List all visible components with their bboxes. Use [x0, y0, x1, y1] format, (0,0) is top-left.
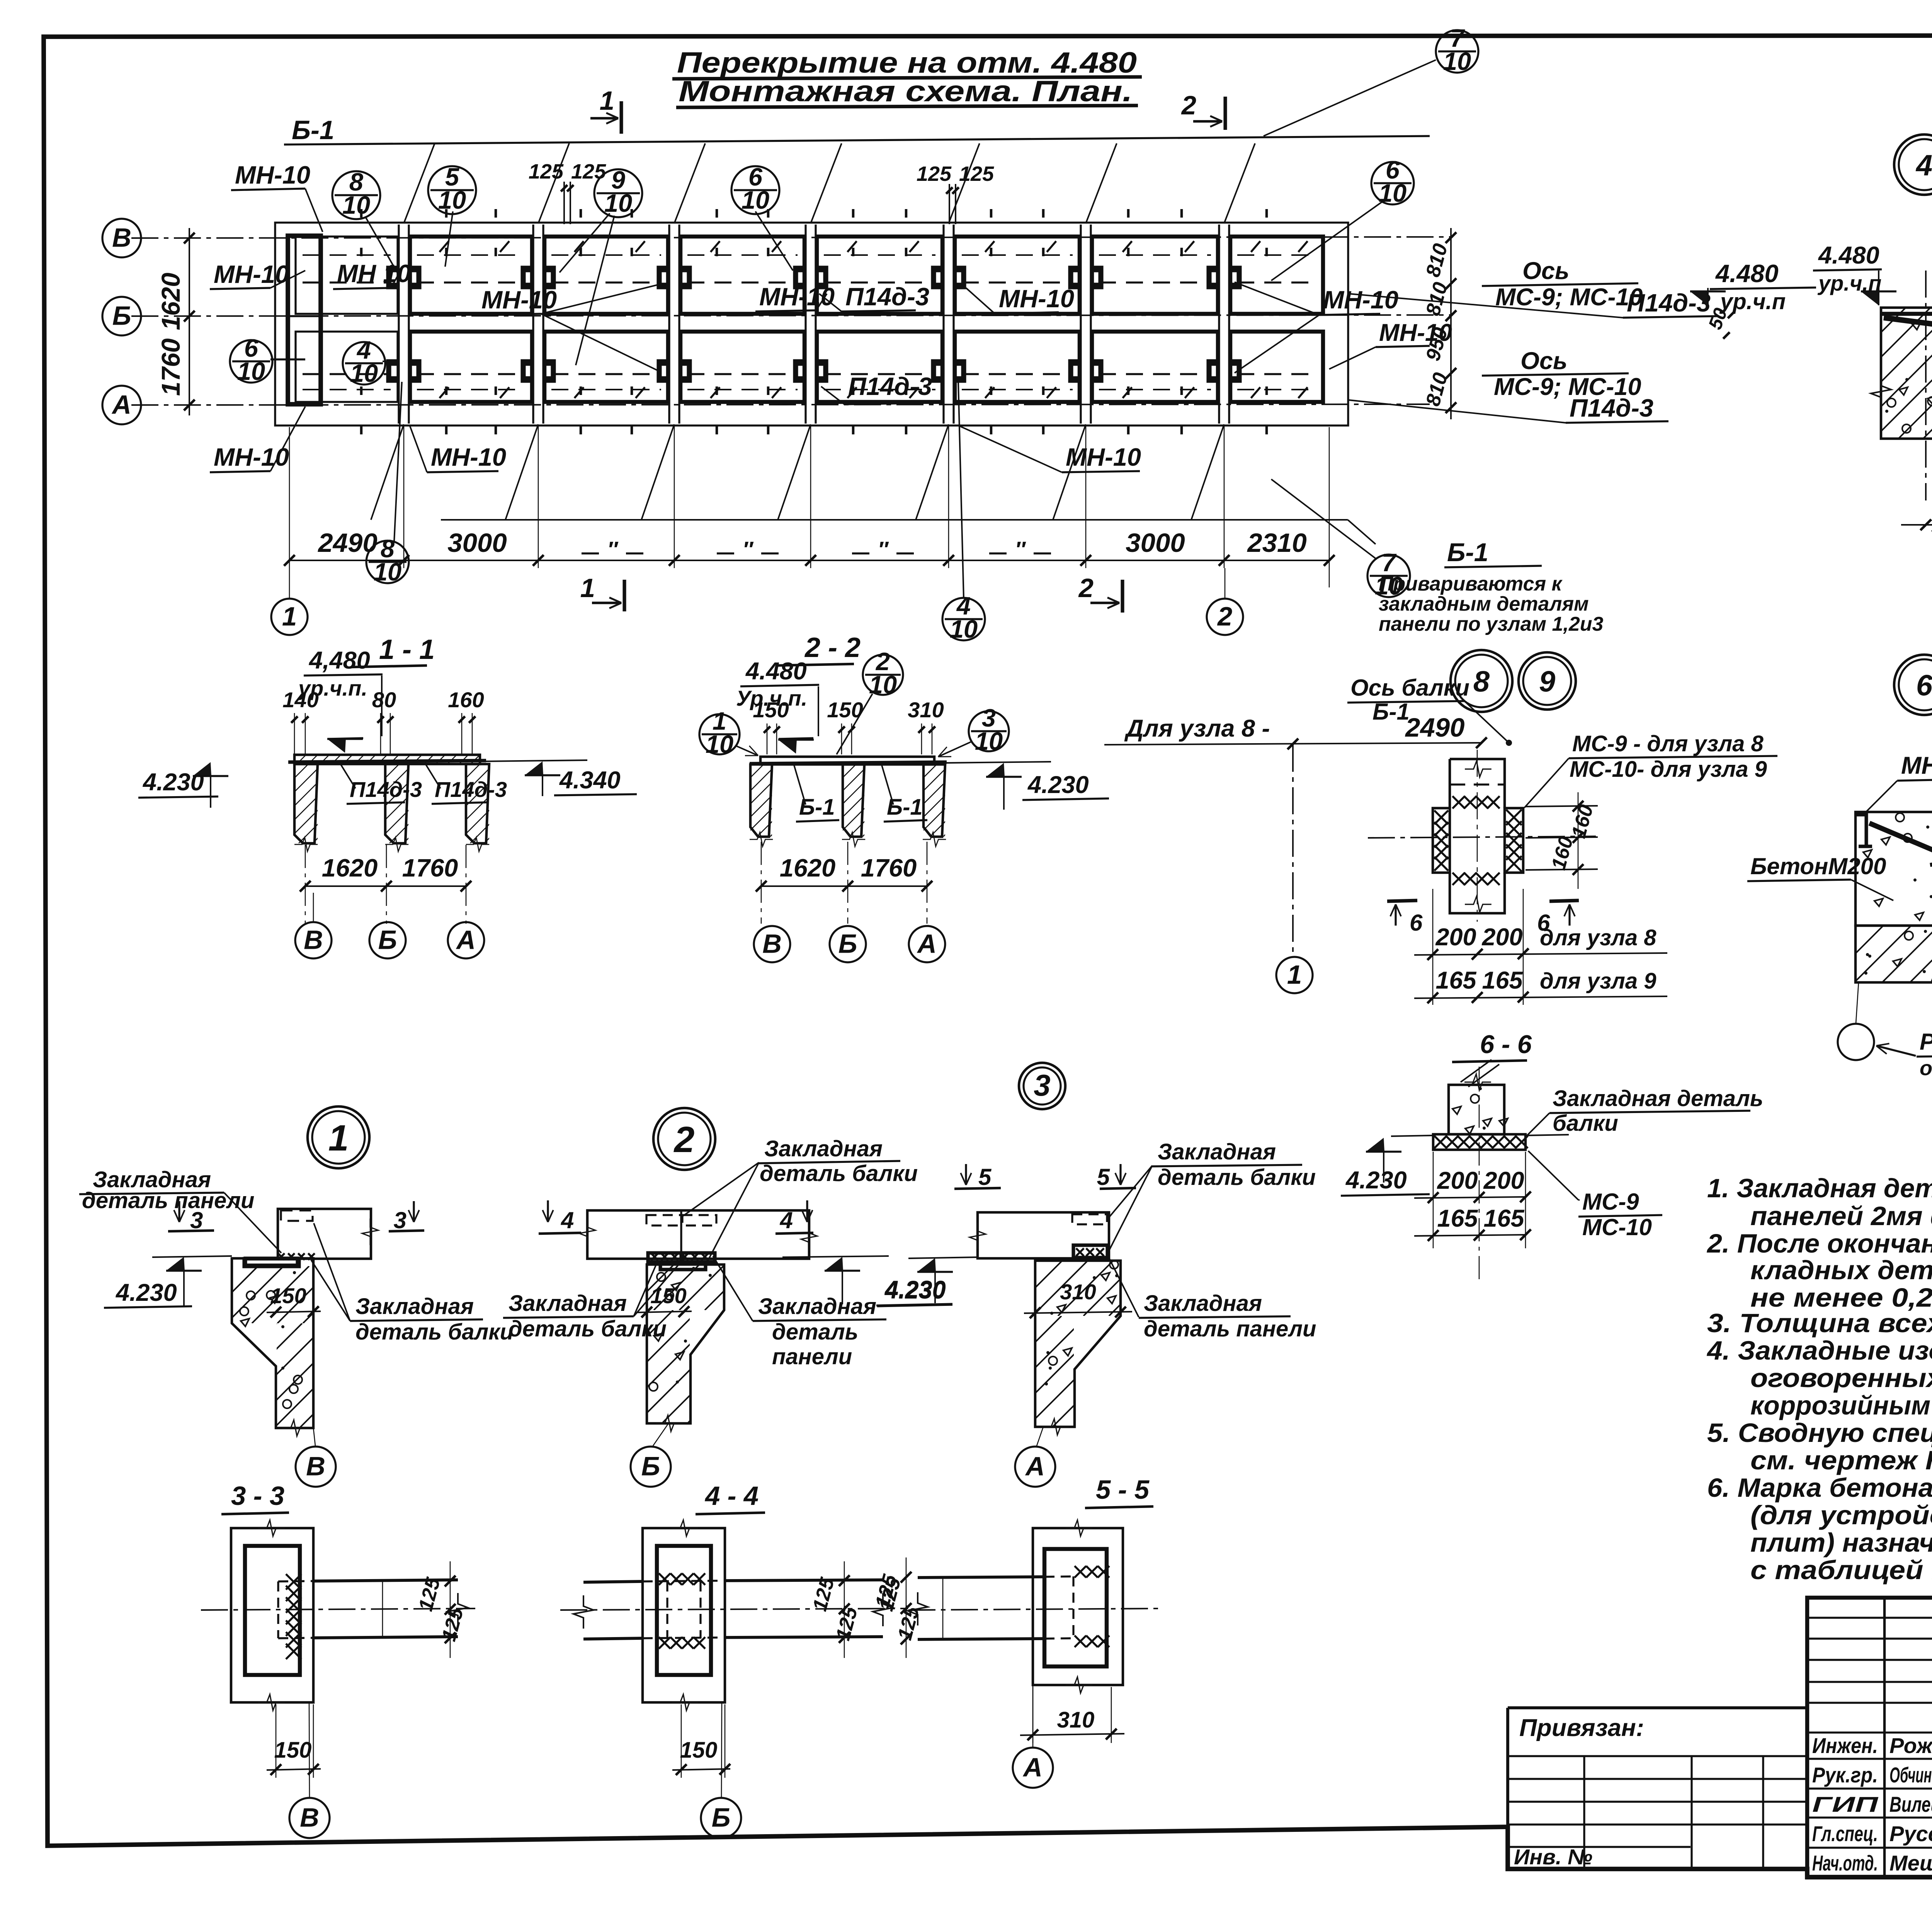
svg-text:200: 200 — [1481, 924, 1522, 951]
Привязан block — [1508, 1708, 1807, 1869]
svg-text:МС-10: МС-10 — [1582, 1214, 1652, 1240]
svg-text:3: 3 — [394, 1207, 406, 1233]
detail 4 МН-10 channel plate — [1881, 314, 1932, 339]
small diagonal marks on panels — [439, 241, 449, 252]
svg-text:оси А,В: оси А,В — [1920, 1057, 1932, 1080]
svg-text:МН-10: МН-10 — [431, 443, 506, 471]
svg-text:10: 10 — [438, 186, 466, 214]
section 3-3 beam — [313, 1580, 458, 1581]
detail 1 section marks 3 — [178, 1201, 180, 1222]
svg-text:3: 3 — [1034, 1068, 1050, 1102]
svg-text:Для узла 8 -: Для узла 8 - — [1124, 715, 1270, 742]
section 5-5 panel outer — [1033, 1528, 1123, 1685]
svg-text:Рожкова: Рожкова — [1889, 1733, 1932, 1758]
svg-text:Закладная деталь: Закладная деталь — [1553, 1086, 1763, 1111]
section 2-2 dims 1620 1760 — [761, 885, 927, 887]
svg-text:МС-9; МС-10: МС-9; МС-10 — [1495, 284, 1643, 311]
node centerlines — [1368, 836, 1596, 838]
svg-text:ГИП: ГИП — [1812, 1792, 1879, 1816]
svg-text:Инв. №: Инв. № — [1514, 1845, 1592, 1869]
axis line В — [131, 237, 1451, 238]
section 5-5 dims 125 125 — [906, 1557, 907, 1658]
svg-text:МН 10: МН 10 — [337, 259, 411, 288]
detail 6 МН-10 corner plate — [1855, 815, 1872, 846]
svg-text:для узла 8: для узла 8 — [1540, 925, 1656, 950]
svg-text:Вилейкина: Вилейкина — [1889, 1792, 1932, 1816]
detail 3 slab panel — [978, 1212, 1109, 1258]
grid circle 2 — [1207, 599, 1243, 635]
svg-text:3: 3 — [190, 1207, 203, 1233]
section 4-4 dims 125 125 — [844, 1561, 845, 1658]
panel joint dashed lines and МС axes — [303, 281, 391, 283]
svg-text:Руссин: Руссин — [1889, 1821, 1932, 1846]
svg-text:10: 10 — [869, 671, 897, 699]
svg-text:200: 200 — [1437, 1167, 1478, 1194]
right vertical dim 810/810/950/810 — [1450, 228, 1452, 419]
svg-text:10: 10 — [374, 558, 401, 586]
svg-text:Б: Б — [112, 301, 131, 330]
detail 2 beam leg concrete — [647, 1265, 724, 1423]
callout 6/10 right — [1371, 162, 1414, 204]
svg-text:плит) назначается при привязке: плит) назначается при привязке проекта в… — [1750, 1528, 1932, 1557]
section 2-2 callout 1/10 — [699, 714, 740, 754]
svg-text:5. Сводную спецификацию издели: 5. Сводную спецификацию изделий на монта… — [1707, 1418, 1932, 1448]
section 2-2 callout 2/10 — [863, 655, 903, 695]
detail 6 anchor bar — [1869, 823, 1932, 855]
svg-text:125: 125 — [529, 160, 564, 183]
svg-text:160: 160 — [448, 688, 484, 712]
svg-text:В: В — [304, 925, 323, 955]
detail 3 beam leg concrete — [1035, 1261, 1121, 1427]
node dim 160 160 right — [1578, 792, 1579, 889]
svg-text:4. Закладные изделия и соедини: 4. Закладные изделия и соединительные де… — [1706, 1336, 1932, 1365]
detail 6 Ряды 1,2 / оси А,В label — [1876, 1046, 1916, 1056]
callout 8/10 upper left — [332, 171, 380, 219]
svg-text:2490: 2490 — [1405, 713, 1465, 742]
svg-text:Б-1: Б-1 — [1372, 699, 1410, 725]
detail 6 Ряды circle — [1838, 1024, 1874, 1060]
svg-text:150: 150 — [827, 698, 863, 722]
detail 1 slab panel — [278, 1209, 371, 1259]
svg-text:4.480: 4.480 — [745, 658, 807, 685]
svg-text:Б-1: Б-1 — [1447, 538, 1488, 567]
svg-text:2 - 2: 2 - 2 — [804, 632, 861, 663]
svg-text:10: 10 — [706, 730, 733, 758]
svg-text:Закладная: Закладная — [1144, 1291, 1262, 1316]
callout 5/10 — [428, 166, 476, 214]
axis circle В — [102, 219, 141, 257]
svg-text:ур.ч.п: ур.ч.п — [1719, 289, 1786, 314]
svg-text:5: 5 — [1097, 1164, 1111, 1190]
svg-text:4.230: 4.230 — [884, 1276, 946, 1303]
section 2-2 axis circles — [754, 926, 790, 962]
svg-text:3 - 3: 3 - 3 — [231, 1481, 284, 1511]
svg-text:МС-9; МС-10: МС-9; МС-10 — [1494, 373, 1641, 400]
svg-text:2: 2 — [1181, 90, 1196, 120]
svg-text:В: В — [762, 929, 782, 958]
svg-text:панели: панели — [772, 1344, 852, 1369]
svg-text:6 - 6: 6 - 6 — [1480, 1030, 1532, 1059]
svg-text:165: 165 — [1437, 1205, 1478, 1232]
svg-text:Б: Б — [712, 1802, 731, 1832]
svg-text:4.230: 4.230 — [1345, 1167, 1407, 1194]
callout 6/10 top right of plan — [731, 166, 779, 214]
personnel table columns — [1883, 1598, 1886, 1877]
svg-text:МН-10: МН-10 — [999, 284, 1074, 313]
svg-text:Мешалкин: Мешалкин — [1889, 1851, 1932, 1875]
svg-text:10: 10 — [342, 191, 370, 219]
svg-text:9: 9 — [1539, 665, 1555, 698]
svg-text:МН-10: МН-10 — [1066, 443, 1141, 471]
section 1-1 axis circles В Б А — [295, 922, 332, 958]
detail circle 6 — [1894, 655, 1932, 715]
svg-text:МС-9: МС-9 — [1582, 1189, 1639, 1215]
detail 1 beam leg concrete — [232, 1258, 313, 1428]
svg-text:П14д-3: П14д-3 — [848, 372, 932, 400]
node vertical dash-dot line — [1292, 745, 1294, 953]
ditto marks — [582, 552, 599, 554]
svg-text:деталь балки: деталь балки — [1158, 1165, 1316, 1190]
section mark 1 bottom — [622, 580, 626, 611]
svg-text:4.480: 4.480 — [1715, 259, 1779, 288]
svg-text:П14д-3: П14д-3 — [435, 777, 507, 802]
svg-text:4.480: 4.480 — [1818, 242, 1879, 269]
svg-text:закладным деталям: закладным деталям — [1379, 593, 1589, 615]
node beam strip — [1450, 759, 1505, 913]
svg-text:4: 4 — [561, 1207, 574, 1233]
node dims 200 200 для узла 8 — [1414, 953, 1667, 955]
svg-text:1: 1 — [1287, 960, 1302, 989]
svg-text:4,480: 4,480 — [308, 647, 370, 674]
svg-text:″: ″ — [743, 537, 754, 561]
detail 4 concrete block — [1881, 308, 1932, 439]
svg-text:2. После окончания сварки свар: 2. После окончания сварки сварные швы и … — [1706, 1229, 1932, 1258]
personnel table rows — [1807, 1617, 1932, 1619]
section 5-5 axis circle А — [1032, 1685, 1034, 1747]
section 5-5 beam from left — [918, 1577, 1044, 1578]
svg-text:2: 2 — [1078, 573, 1094, 603]
node dims 165 165 для узла 9 — [1414, 996, 1667, 998]
axis circle Б — [102, 297, 141, 335]
6-6 dims 200 200 — [1414, 1197, 1526, 1198]
svg-text:деталь балки: деталь балки — [509, 1316, 667, 1341]
svg-text:10: 10 — [975, 727, 1003, 755]
svg-text:оговоренных в п.1) защищаются: оговоренных в п.1) защищаются обмазкой з… — [1750, 1363, 1932, 1393]
svg-text:2: 2 — [1217, 601, 1232, 631]
section 5-5 centerline — [908, 1608, 1160, 1610]
svg-text:125: 125 — [917, 162, 952, 186]
detail 2 section marks 4 — [547, 1200, 549, 1222]
svg-text:МН-10: МН-10 — [1323, 286, 1398, 314]
svg-text:1 - 1: 1 - 1 — [379, 634, 435, 665]
section 4-4 axis circle Б — [721, 1702, 722, 1797]
axis line А — [131, 404, 1430, 405]
detail 3 elevation 4.230 — [908, 1257, 978, 1258]
node side plates — [1433, 808, 1450, 873]
detail 1 elevation 4.230 — [152, 1256, 232, 1257]
svg-text:А: А — [917, 929, 937, 958]
section marks 6-6 on node — [1387, 900, 1417, 901]
svg-text:Закладная: Закладная — [509, 1291, 627, 1316]
6-6 dims 165 165 — [1414, 1235, 1526, 1236]
svg-text:1: 1 — [580, 573, 595, 603]
svg-text:Б: Б — [378, 925, 397, 955]
detail 6 break mark bottom — [1920, 972, 1932, 992]
detail 2 elevation line — [782, 1256, 889, 1257]
svg-text:2310: 2310 — [1247, 528, 1307, 558]
axis line Б — [131, 315, 1451, 316]
beams Б-1 (double line verticals with МН-10 flange plates) — [398, 225, 400, 424]
section 2-2 slab — [760, 757, 934, 764]
section 3-3 dims 125 125 — [450, 1561, 451, 1658]
svg-text:150: 150 — [270, 1283, 306, 1308]
svg-text:1620: 1620 — [780, 854, 836, 882]
detail 6 block upper (Бетон М200) — [1855, 812, 1932, 926]
svg-text:А: А — [111, 390, 131, 419]
svg-text:Привариваются к: Привариваются к — [1379, 573, 1563, 595]
Ось МС-9; МС-10 upper — [1482, 283, 1638, 286]
svg-text:деталь панели: деталь панели — [82, 1188, 254, 1213]
svg-text:3. Толщина всех сварных швов-8: 3. Толщина всех сварных швов-8мм. Электр… — [1707, 1308, 1932, 1338]
Ось МС-9; МС-10 lower — [1482, 373, 1629, 376]
svg-text:МС-9 - для узла 8: МС-9 - для узла 8 — [1572, 731, 1764, 756]
svg-text:Закладная: Закладная — [1158, 1139, 1276, 1164]
callout 9/10 — [594, 169, 642, 217]
svg-text:3000: 3000 — [1126, 528, 1185, 558]
callout 7/10 top far right — [1436, 30, 1478, 73]
svg-text:10: 10 — [742, 186, 769, 214]
svg-text:10: 10 — [350, 359, 378, 387]
svg-text:310: 310 — [1057, 1707, 1095, 1733]
svg-text:панели по узлам 1,2и3: панели по узлам 1,2и3 — [1379, 613, 1604, 635]
detail circle 3 — [1019, 1063, 1065, 1109]
svg-text:125: 125 — [959, 162, 994, 186]
svg-text:165: 165 — [1435, 967, 1476, 994]
svg-text:1760: 1760 — [402, 854, 458, 882]
svg-text:Закладная: Закладная — [758, 1294, 876, 1319]
svg-text:см. чертеж КЖ-1.: см. чертеж КЖ-1. — [1750, 1445, 1932, 1475]
svg-text:″: ″ — [607, 537, 619, 561]
svg-text:5: 5 — [978, 1164, 992, 1190]
svg-text:А: А — [1022, 1752, 1043, 1782]
svg-text:В: В — [306, 1451, 325, 1481]
svg-text:Монтажная схема. План.: Монтажная схема. План. — [679, 75, 1133, 108]
svg-text:1. Закладная деталь балки Б-1: 1. Закладная деталь балки Б-1 приваривае… — [1707, 1173, 1932, 1203]
callout 4/10 in plan — [343, 342, 385, 385]
panel joint dash marks at beams — [360, 209, 363, 218]
svg-text:10: 10 — [237, 357, 265, 385]
svg-text:деталь балки: деталь балки — [355, 1319, 514, 1345]
section 3-3 panel inner — [245, 1546, 300, 1675]
svg-text:4: 4 — [1915, 149, 1932, 182]
svg-text:для узла 9: для узла 9 — [1540, 968, 1656, 994]
title block outer — [1807, 1598, 1932, 1877]
svg-text:165: 165 — [1482, 967, 1523, 994]
detail 4 break marks — [1871, 375, 1891, 408]
svg-text:150: 150 — [753, 698, 789, 722]
svg-text:4 - 4: 4 - 4 — [704, 1481, 759, 1511]
section 5-5 weld hatches — [1075, 1566, 1086, 1578]
section 4-4 centerline — [560, 1608, 908, 1610]
grid circle 1 — [271, 599, 308, 635]
svg-text:5 - 5: 5 - 5 — [1096, 1475, 1150, 1505]
svg-text:10: 10 — [604, 189, 632, 217]
detail 4 centerline — [1925, 271, 1927, 500]
svg-text:Б: Б — [641, 1451, 660, 1481]
node detail circles 8 and 9 — [1451, 650, 1512, 712]
detail 6 block lower hatched — [1855, 926, 1932, 982]
section 2-2 elevation 4.230 — [986, 763, 1005, 777]
svg-text:6: 6 — [1916, 669, 1932, 702]
svg-text:П14д-3: П14д-3 — [845, 283, 929, 311]
svg-text:Обчинникова: Обчинникова — [1889, 1763, 1932, 1787]
section 1-1 slab — [294, 755, 480, 764]
svg-text:МН-10: МН-10 — [235, 161, 310, 189]
detail 2 axis circle Б — [653, 1423, 668, 1446]
panels П14д-3 in plan (upper row) — [296, 237, 398, 314]
svg-text:деталь балки: деталь балки — [760, 1161, 918, 1186]
node grid circle 1 — [1276, 957, 1313, 993]
svg-text:балки: балки — [1553, 1111, 1618, 1136]
section 1-1 dims 1620 1760 — [305, 885, 466, 887]
svg-text:8: 8 — [1473, 665, 1490, 698]
section 4-4 panel outer — [643, 1528, 725, 1702]
svg-text:1620: 1620 — [156, 272, 185, 330]
svg-text:1760: 1760 — [861, 854, 917, 882]
svg-text:200: 200 — [1483, 1167, 1524, 1194]
6-6 elevation 4.230 — [1366, 1138, 1384, 1152]
section 4-4 beam through — [583, 1581, 643, 1582]
svg-text:деталь: деталь — [772, 1319, 858, 1345]
svg-text:2490: 2490 — [317, 528, 378, 558]
svg-text:4.230: 4.230 — [142, 769, 204, 796]
section 5-5 panel inner — [1044, 1549, 1107, 1666]
detail 3 section marks 5 — [965, 1164, 967, 1185]
detail 2 slab panels — [587, 1210, 809, 1259]
svg-text:310: 310 — [908, 698, 944, 722]
svg-text:310: 310 — [1060, 1280, 1096, 1304]
svg-text:2: 2 — [673, 1119, 695, 1160]
detail 6 Ряды line to circle — [1856, 982, 1859, 1023]
section 2-2 callout 3/10 — [969, 711, 1009, 751]
svg-text:П14д-3: П14д-3 — [350, 777, 422, 802]
svg-text:1760: 1760 — [156, 338, 185, 396]
svg-text:3000: 3000 — [447, 528, 507, 558]
svg-text:Ось балки: Ось балки — [1350, 675, 1469, 701]
svg-text:1: 1 — [282, 601, 297, 631]
svg-text:150: 150 — [274, 1738, 312, 1763]
svg-text:Б: Б — [838, 929, 857, 958]
section mark 1 top — [619, 101, 623, 134]
section 3-3 panel outer — [231, 1528, 313, 1702]
detail 1 axis circle В — [313, 1428, 315, 1446]
svg-text:150: 150 — [650, 1283, 686, 1308]
svg-text:4: 4 — [780, 1207, 793, 1233]
node weld x-hatches — [1452, 796, 1465, 808]
6-6 centerline — [1479, 1067, 1480, 1281]
svg-text:4.230: 4.230 — [115, 1279, 177, 1306]
svg-text:Инжен.: Инжен. — [1812, 1733, 1878, 1758]
svg-text:165: 165 — [1483, 1205, 1524, 1232]
plan envelope outline — [275, 223, 1348, 426]
detail circle 1 — [308, 1106, 369, 1168]
svg-text:125: 125 — [571, 160, 606, 183]
svg-text:коррозийным битумным лаком.: коррозийным битумным лаком. — [1750, 1391, 1932, 1420]
svg-text:80: 80 — [372, 688, 396, 712]
svg-text:6. Марка бетона по морозостойк: 6. Марка бетона по морозостойкости и вод… — [1707, 1473, 1932, 1503]
svg-text:Закладная: Закладная — [355, 1294, 474, 1319]
panels П14д-3 in plan (lower row) — [296, 332, 398, 402]
detail circle 2 — [653, 1108, 715, 1170]
svg-text:кладных деталей балки и панели: кладных деталей балки и панели защитить … — [1750, 1255, 1932, 1285]
svg-text:1620: 1620 — [322, 854, 378, 882]
svg-text:4.340: 4.340 — [559, 767, 621, 794]
section 4-4 weld hatches — [659, 1573, 670, 1585]
section 3-3 centerline — [201, 1608, 475, 1610]
svg-text:200: 200 — [1435, 924, 1476, 951]
svg-text:Рук.гр.: Рук.гр. — [1812, 1763, 1878, 1787]
svg-text:деталь панели: деталь панели — [1144, 1316, 1316, 1341]
6-6 concrete post — [1449, 1085, 1504, 1134]
svg-text:Гл.спец.: Гл.спец. — [1812, 1821, 1878, 1846]
section 1-1 elevation 4.340 — [525, 761, 543, 775]
svg-text:Ряды 1,2: Ряды 1,2 — [1920, 1029, 1932, 1055]
section 2-2 legs Б-1 — [750, 764, 772, 837]
svg-text:Привязан:: Привязан: — [1519, 1714, 1644, 1741]
section mark 2 top — [1223, 97, 1227, 130]
svg-text:МН-10: МН-10 — [481, 286, 557, 314]
svg-text:10: 10 — [1379, 179, 1406, 207]
left end panel МН-10 (dark strip) — [288, 236, 321, 404]
svg-text:Закладная: Закладная — [764, 1136, 883, 1161]
svg-text:(для устройства бортика по ося: (для устройства бортика по осям 1,3,А,В … — [1750, 1500, 1932, 1530]
detail circle 4 — [1894, 134, 1932, 195]
svg-text:с таблицей на черт. КЖ-1.: с таблицей на черт. КЖ-1. — [1750, 1555, 1932, 1585]
section mark 2 bottom — [1121, 580, 1124, 613]
svg-text:150: 150 — [680, 1738, 718, 1763]
svg-text:″: ″ — [1015, 537, 1026, 561]
svg-text:″: ″ — [878, 537, 889, 561]
section 3-3 weld hatch — [286, 1574, 301, 1590]
callout 6/10 in plan left — [230, 340, 272, 383]
svg-text:6: 6 — [1410, 910, 1423, 936]
svg-text:1: 1 — [328, 1118, 349, 1159]
callout 7/10 bottom right — [1367, 555, 1410, 597]
Б-1 bottom callout line with leaders — [441, 519, 1348, 521]
axis circle А — [102, 386, 141, 424]
plan bottom dim line 2490-3000-...-2310 — [289, 560, 1329, 561]
left vertical dim line 1620/1760 — [189, 228, 190, 415]
svg-text:Б-1: Б-1 — [292, 115, 334, 145]
svg-text:Перекрытие на отм. 4.480: Перекрытие на отм. 4.480 — [677, 46, 1137, 79]
section 4-4 panel inner — [657, 1546, 711, 1675]
6-6 МС-9 МС-10 label — [1528, 1151, 1578, 1200]
detail 3 axis circle А — [1037, 1427, 1043, 1446]
detail 1 beam top plate — [245, 1258, 298, 1265]
svg-text:А: А — [1025, 1451, 1045, 1481]
svg-text:Ось: Ось — [1520, 347, 1567, 374]
svg-text:4.230: 4.230 — [1027, 771, 1089, 798]
6-6 base plate — [1433, 1134, 1526, 1150]
svg-text:БетонМ200: БетонМ200 — [1750, 853, 1886, 879]
svg-text:10: 10 — [1443, 47, 1471, 75]
title underline 1 — [672, 77, 1142, 79]
svg-text:140: 140 — [282, 688, 318, 712]
svg-text:В: В — [112, 223, 131, 252]
svg-text:МС-10- для узла 9: МС-10- для узла 9 — [1570, 757, 1767, 782]
svg-text:10: 10 — [950, 615, 978, 643]
section 1-1 legs П14д-3 — [294, 764, 318, 843]
